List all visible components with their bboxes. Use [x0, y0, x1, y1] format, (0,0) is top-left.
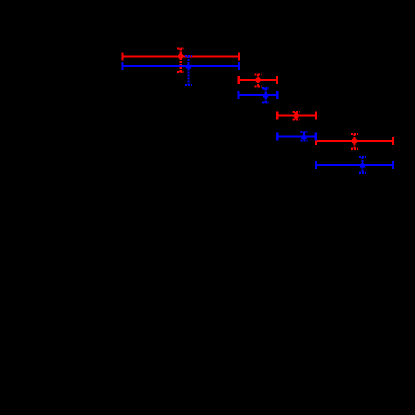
blue data point B2: horizontal (bin-width) error bar with end caps: [239, 91, 278, 99]
red data point R1: marker: [178, 54, 184, 60]
red data point R4: horizontal (bin-width) error bar with end caps: [316, 137, 393, 145]
red data point R3: vertical dotted error bar with dotted caps: [293, 112, 300, 120]
red data point R2: vertical dotted error bar with dotted caps: [255, 75, 262, 87]
blue data point B4: vertical dotted error bar with dotted caps: [359, 157, 366, 173]
red data point R1: horizontal (bin-width) error bar with end caps: [123, 52, 239, 60]
red data point R2: horizontal (bin-width) error bar with end caps: [239, 76, 277, 84]
blue data point B1: horizontal (bin-width) error bar with end caps: [123, 62, 239, 70]
blue data point B3: marker: [301, 133, 307, 140]
blue data point B1: vertical dotted error bar with dotted caps: [185, 56, 192, 85]
red data point R3: marker: [293, 113, 299, 119]
blue data point B2: vertical dotted error bar with dotted caps: [262, 88, 269, 102]
blue data point B2: marker: [263, 91, 269, 98]
blue data point B4: marker: [359, 161, 365, 168]
blue data point B1: marker: [185, 62, 191, 68]
red data point R3: horizontal (bin-width) error bar with end caps: [277, 112, 316, 120]
blue data point B4: horizontal (bin-width) error bar with end caps: [316, 161, 393, 169]
red data point R2: marker: [255, 77, 261, 83]
blue data point B3: vertical dotted error bar with dotted caps: [301, 132, 308, 140]
blue data point B3: horizontal (bin-width) error bar with end caps: [277, 133, 316, 141]
red data point R4: vertical dotted error bar with dotted caps: [351, 134, 358, 149]
red data point R4: marker: [352, 138, 358, 144]
red data point R1: vertical dotted error bar with dotted caps: [177, 49, 184, 72]
